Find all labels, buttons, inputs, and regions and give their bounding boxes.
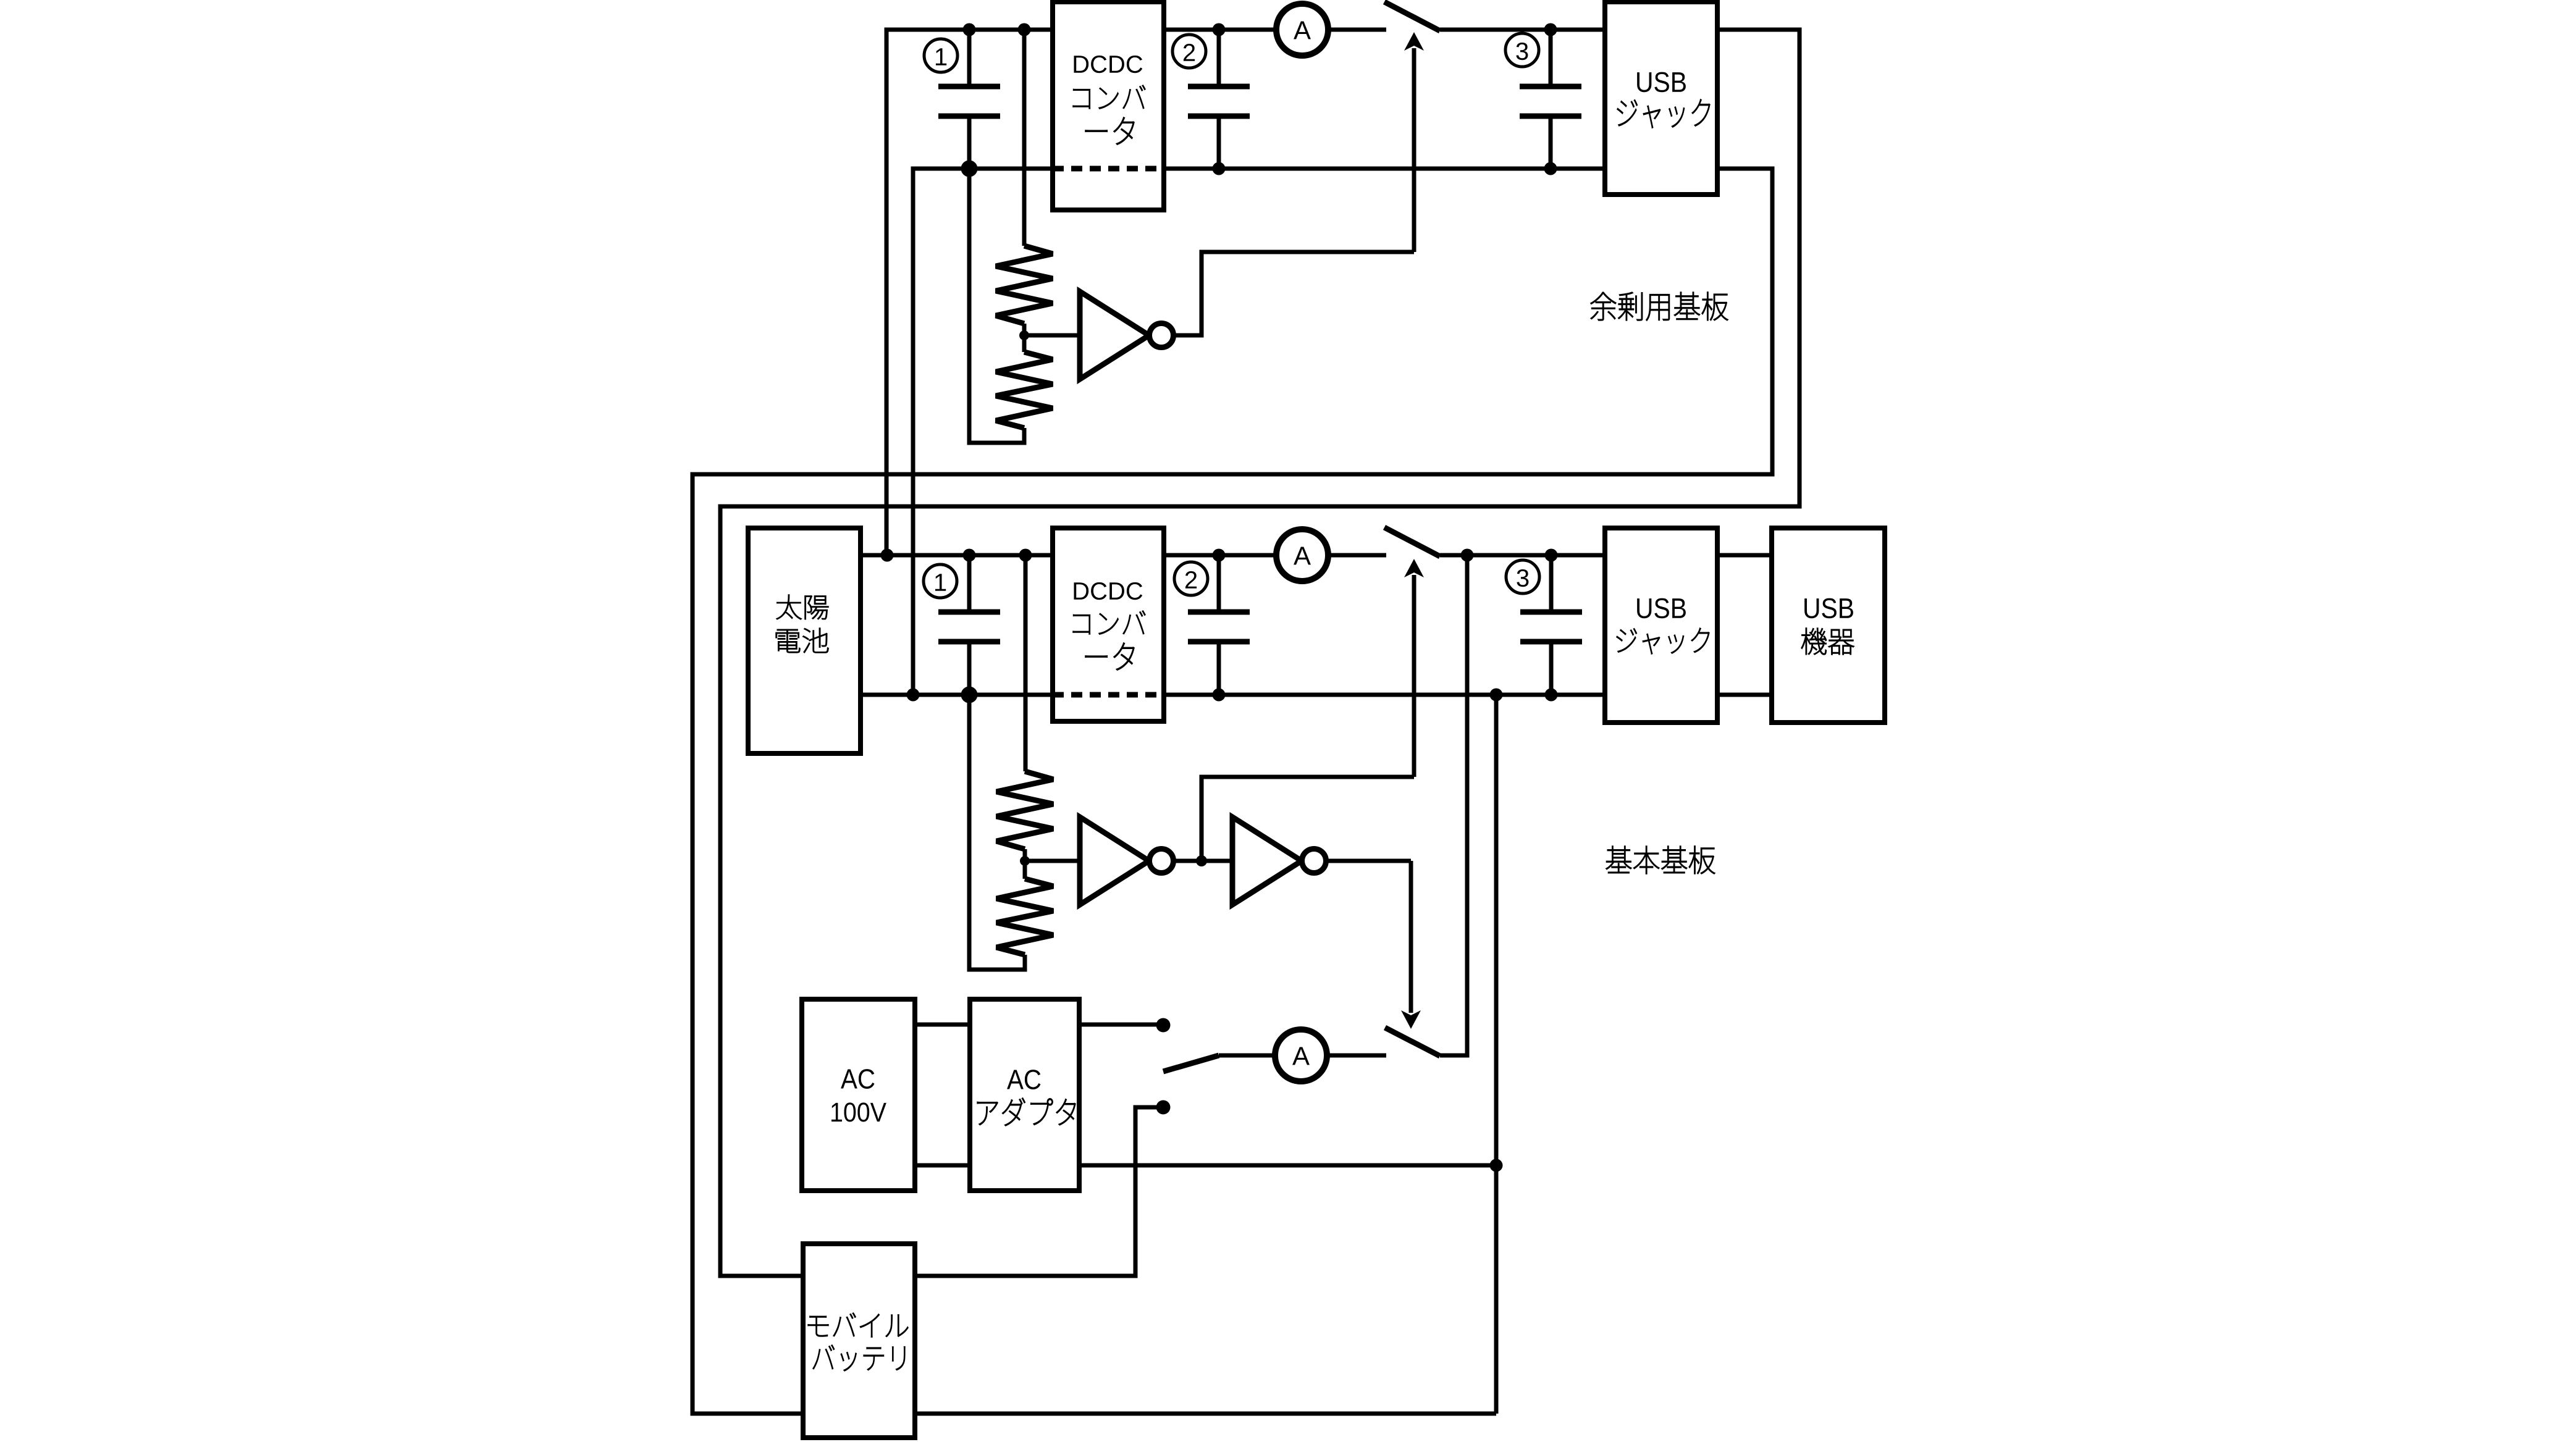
wire R1 top stub (1022, 30, 1027, 246)
capacitor C4 (bottom board input) (938, 555, 1000, 695)
USB device label (1801, 598, 1854, 655)
AC adapter label (977, 1070, 1075, 1126)
resistor R1 (top board upper) (996, 246, 1053, 324)
wire tap to inverter U4 input (1025, 859, 1079, 863)
DCDC converter U2 box (bottom board) (1053, 528, 1164, 721)
node AC adapter return junction (1490, 1159, 1503, 1172)
mobile battery label (808, 1313, 908, 1371)
resistor R4 (bottom board lower) (996, 879, 1053, 955)
AC 100V label (831, 1069, 886, 1121)
USB device box (1772, 528, 1885, 723)
DCDC converter U1 box (top board) (1053, 2, 1164, 210)
switch S2 blade (bottom board, open) (1384, 527, 1440, 556)
DCDC U1 label (1073, 56, 1145, 145)
AC 100V source box (802, 999, 915, 1191)
wire top-board jack V+ to right loop (720, 30, 1799, 1276)
node C5 top junction (1213, 549, 1226, 562)
capacitor C5 (bottom board output) (1188, 555, 1250, 695)
switch S4 blade (open) (1385, 1028, 1440, 1056)
node R1/R2 tap (1019, 330, 1029, 340)
wire R2 bottom return to GND (969, 169, 1024, 443)
node C2 top junction (1213, 23, 1226, 36)
switch2 control arrow (1404, 559, 1424, 777)
node U4/U5 junction (1196, 855, 1207, 866)
wire battery output (915, 1107, 1163, 1276)
node R3/R4 tap (1020, 856, 1030, 866)
node resistor divider top junction (1018, 23, 1031, 36)
wire jack to USB device V+ (1717, 553, 1772, 558)
USB jack J2 box (bottom board) (1605, 528, 1717, 723)
node C1 top junction (963, 23, 976, 36)
wire adapter output to switch3 upper contact (1079, 1023, 1163, 1027)
USB jack J1 box (top board) (1605, 2, 1717, 195)
wire switch2 output drop to switch4 (1440, 555, 1467, 1055)
wire bottom-board GND rail (861, 693, 1605, 697)
AC adapter box (970, 999, 1079, 1191)
node switch3 lower contact (1156, 1100, 1171, 1115)
node C3 bottom junction (1544, 162, 1557, 175)
node switch2 output junction (1461, 549, 1474, 562)
resistor R2 (top board lower) (996, 352, 1053, 428)
node C6 bottom junction (1545, 689, 1558, 702)
node AC return junction on GND rail (1490, 689, 1503, 702)
node resistor divider top junction (bottom board) (1019, 549, 1032, 562)
wire top-board V+ rail (right of switch S1) (1440, 28, 1605, 32)
ammeter M1 (top board) (1276, 4, 1328, 56)
DCDC U1 internal GND dashed line (1053, 166, 1164, 172)
switch S1 blade (top board, open) (1384, 2, 1440, 31)
USB jack J1 label (1617, 72, 1710, 128)
wire AC100V to adapter lower (915, 1163, 970, 1168)
wire top-board V+ rail (left of switch S1) (886, 30, 1386, 555)
wire U4 output to switch2 control (1202, 777, 1414, 861)
wire AC100V to adapter upper (915, 1023, 970, 1027)
wire U5 output to switch4 control (1326, 859, 1411, 863)
capacitor C1 (top board input) (938, 30, 1000, 169)
DCDC U2 internal GND dashed line (1053, 692, 1164, 698)
capacitor C2 (top board output) (1188, 30, 1250, 169)
wire U3 output to switch1 control (1174, 252, 1414, 335)
inverter U4 (bottom board first) (1080, 817, 1174, 905)
node C2 bottom junction (1213, 162, 1226, 175)
switch4 control arrow (1401, 861, 1421, 1029)
node C4 top junction (963, 549, 976, 562)
ammeter M2 (bottom board) (1276, 529, 1328, 581)
wire GND drop to AC adapter return (1494, 695, 1499, 1414)
DCDC U2 label (1073, 582, 1145, 670)
node C5 bottom junction (1213, 689, 1226, 702)
node C6 top junction (1545, 549, 1558, 562)
solar cell box 太陽電池 (748, 528, 861, 753)
inverter U5 (bottom board second) (1232, 817, 1326, 905)
wire jack to USB device GND (1717, 693, 1772, 697)
capacitor C3 (top board jack side) (1520, 30, 1581, 169)
circled 1 label (bottom board) (924, 564, 957, 598)
wire bottom-board V+ rail (right of switch S2) (1440, 553, 1605, 558)
mobile battery box モバイルバッテリ (803, 1244, 915, 1438)
node C1 bottom junction (4-way) (961, 161, 978, 177)
wire U4 output to U5 input (1174, 859, 1232, 863)
node C3 top junction (1544, 23, 1557, 36)
wire bottom-board V+ rail (left of switch S2) (861, 553, 1386, 558)
wire R4 bottom return to GND (969, 695, 1025, 970)
circled 3 label (bottom board) (1506, 560, 1539, 593)
wire M3 to switch4 contact (1328, 1054, 1386, 1058)
node solar V+ / top-board feed junction (881, 549, 894, 562)
USB jack J2 label (1617, 598, 1709, 654)
circled 2 label (top board) (1172, 35, 1206, 68)
wire tap to inverter U3 input (1024, 333, 1079, 338)
wire adapter return (1079, 1163, 1496, 1168)
circled 3 label (top board) (1505, 33, 1539, 67)
switch1 control arrow (1404, 32, 1424, 252)
circled 1 label (top board) (924, 39, 958, 72)
circled 2 label (bottom board) (1174, 562, 1208, 595)
wire R1-R2 tap stub (1022, 324, 1027, 352)
ammeter M3 (1275, 1029, 1327, 1081)
resistor R3 (bottom board upper) (996, 771, 1053, 849)
node GND feed junction (907, 689, 920, 702)
solar cell label (776, 595, 828, 653)
board label 基本基板 (1606, 846, 1715, 874)
inverter U3 (top board) (1080, 291, 1174, 379)
capacitor C6 (bottom board jack side) (1520, 555, 1582, 695)
wire top-board jack GND to left loop (692, 169, 1772, 1414)
wire top-board GND rail and left drop (913, 169, 1605, 695)
node switch3 upper contact (1156, 1018, 1171, 1033)
wire R3-R4 tap stub (1023, 849, 1027, 879)
wire switch3 pivot to ammeter M3 (1219, 1054, 1274, 1058)
switch S3 blade (selector) (1163, 1055, 1219, 1071)
board label 余剰用基板 (1591, 292, 1728, 321)
wire R3 top stub (1024, 555, 1028, 771)
node C4 bottom junction (4-way) (961, 687, 978, 703)
